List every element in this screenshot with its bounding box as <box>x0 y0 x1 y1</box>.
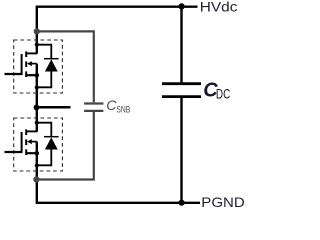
svg-text:PGND: PGND <box>201 195 244 210</box>
svg-text:DC: DC <box>216 87 231 102</box>
svg-text:HVdc: HVdc <box>200 0 238 16</box>
svg-text:SNB: SNB <box>116 105 130 116</box>
